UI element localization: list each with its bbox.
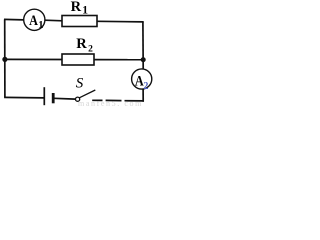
wire: R2 to right junction (94, 59, 143, 61)
ammeter A1 (24, 9, 45, 30)
wire: top left to ammeter A1 (4, 18, 24, 21)
wire: dash 2 (106, 99, 122, 101)
switch blade (79, 90, 95, 98)
svg-text:S: S (76, 76, 84, 92)
wire: battery to switch pivot (54, 97, 76, 100)
svg-text:2: 2 (143, 81, 148, 92)
svg-text:R: R (71, 0, 82, 15)
wire: dash 3 to bottom-right corner (125, 100, 145, 102)
switch pivot (76, 97, 80, 101)
svg-text:1: 1 (38, 20, 43, 31)
wire: dash 1 (92, 99, 102, 101)
battery: short thick plate (52, 93, 55, 103)
wire: R1 to top-right corner (97, 20, 144, 23)
ammeter A2 (132, 69, 152, 89)
resistor R2 (62, 54, 94, 65)
wire: A1 to R1 (45, 19, 63, 22)
node: left junction (2, 57, 7, 62)
resistor R1 (62, 16, 97, 27)
wire: middle left to R2 (5, 58, 63, 60)
svg-text:2: 2 (88, 45, 93, 55)
wire: bottom left to battery (4, 96, 44, 99)
wire: right vertical upper (142, 22, 144, 69)
node: right junction (141, 57, 146, 62)
wire: left vertical (4, 19, 6, 97)
wire: A2 bottom to corner (142, 89, 144, 102)
svg-text:A: A (29, 13, 38, 29)
svg-text:R: R (76, 36, 87, 52)
battery: long plate (43, 87, 45, 105)
svg-text:1: 1 (82, 5, 88, 17)
